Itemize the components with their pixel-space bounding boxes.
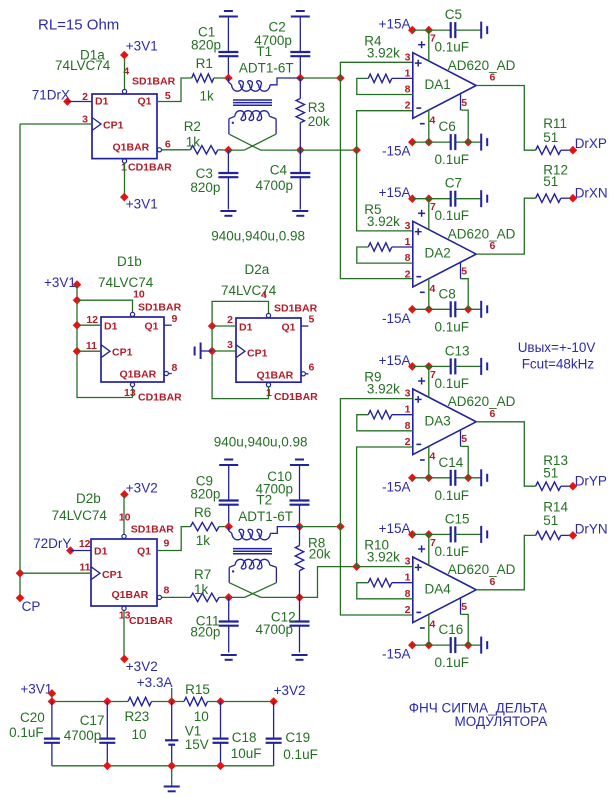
svg-text:МОДУЛЯТОРА: МОДУЛЯТОРА <box>455 714 548 729</box>
svg-text:C13: C13 <box>445 343 470 358</box>
junction node C (T2 top) <box>336 522 345 531</box>
pin7 wire (DA4) <box>428 534 430 565</box>
bubble Q1BAR (D2a) <box>301 372 305 376</box>
wire secondary row left <box>228 149 244 151</box>
capacitor C1 <box>218 17 238 79</box>
flip-flop D2b body <box>91 539 157 606</box>
svg-text:D1: D1 <box>104 321 118 333</box>
svg-text:R2: R2 <box>184 119 201 134</box>
svg-text:2: 2 <box>227 314 233 326</box>
wire to CD1BAR (D1b) <box>132 387 134 398</box>
svg-text:820p: 820p <box>191 38 221 53</box>
svg-text:C4: C4 <box>270 163 288 178</box>
capacitor C5 <box>451 22 482 38</box>
pin4 wire (DA2) <box>428 279 430 310</box>
resistor R4 (gain of DA1) <box>357 74 413 94</box>
wire CP1 stub (D1a) <box>20 123 92 125</box>
power +15A (DA1) <box>379 17 451 35</box>
bubble CD1BAR (D2b) <box>122 606 126 610</box>
resistor R7 <box>190 593 228 601</box>
bubble Q1BAR (D1b) <box>164 371 168 375</box>
svg-text:+3V2: +3V2 <box>126 481 158 496</box>
resistor R23 <box>128 697 152 705</box>
svg-text:15V: 15V <box>185 737 209 752</box>
wire T2 secondary row left <box>229 596 245 598</box>
junction D2a pin2 <box>208 322 217 331</box>
pin4 wire (DA4) <box>428 614 430 645</box>
pin5 wire (DA1) <box>461 94 469 143</box>
svg-text:4700p: 4700p <box>256 178 294 193</box>
svg-text:3.92k: 3.92k <box>367 45 400 60</box>
junction CP at D2b <box>16 569 25 578</box>
capacitor C17 <box>99 702 115 766</box>
plus mark supply (DA2) <box>418 210 425 217</box>
svg-text:D1: D1 <box>95 96 109 108</box>
capacitor C10 <box>290 465 310 527</box>
svg-text:4: 4 <box>430 114 436 126</box>
svg-text:1k: 1k <box>186 135 201 150</box>
svg-text:4: 4 <box>430 451 436 463</box>
wire +3V1 bus (D1b) <box>77 285 133 398</box>
svg-text:3.92k: 3.92k <box>367 550 400 565</box>
svg-text:8: 8 <box>172 362 178 374</box>
svg-text:10: 10 <box>132 727 147 742</box>
pin5 wire (DA4) <box>461 598 469 645</box>
svg-text:R7: R7 <box>194 567 211 582</box>
op-amp DA1 AD620 <box>413 53 476 119</box>
bubble SD1BAR pin (D1a) <box>122 89 126 93</box>
wire node D up to DA3 pin2 <box>357 447 413 567</box>
svg-text:DrXN: DrXN <box>575 186 608 201</box>
svg-text:RL=15 Ohm: RL=15 Ohm <box>38 17 119 34</box>
power +15A (DA4) <box>379 521 451 539</box>
svg-text:12: 12 <box>86 314 98 326</box>
svg-text:74LVC74: 74LVC74 <box>221 283 277 298</box>
svg-text:940u,940u,0.98: 940u,940u,0.98 <box>211 229 305 244</box>
svg-text:1: 1 <box>405 404 411 416</box>
minus mark input (DA2) <box>416 276 421 278</box>
ground above C9 <box>219 464 238 466</box>
bubble SD1BAR (D2a) <box>266 313 270 317</box>
junction node B (T1 bottom) <box>352 146 361 155</box>
svg-text:820p: 820p <box>190 487 220 502</box>
bubble Q1BAR pin (D1a) <box>157 148 161 152</box>
wire 71DrX to pin D1 <box>67 101 92 103</box>
power -15A (DA1) <box>382 138 481 159</box>
svg-text:0.1uF: 0.1uF <box>435 319 470 334</box>
node CP terminal <box>16 594 41 614</box>
svg-text:5: 5 <box>165 90 171 102</box>
svg-text:3: 3 <box>405 220 411 232</box>
power +3V2 terminal bottom of D2b <box>120 655 158 674</box>
minus mark supply (DA3) <box>420 459 425 461</box>
junction rail at C20 <box>48 697 57 706</box>
ground right of C13 <box>480 358 482 375</box>
svg-text:10: 10 <box>119 512 131 524</box>
svg-text:820p: 820p <box>190 625 220 640</box>
svg-text:2: 2 <box>405 268 411 280</box>
svg-text:20k: 20k <box>308 114 330 129</box>
wire to D1 (D1b) <box>77 324 101 326</box>
ground below C11 <box>221 654 237 656</box>
svg-text:R11: R11 <box>543 116 567 131</box>
junction rail at +3.3A <box>167 697 176 706</box>
ground above C10 <box>290 464 309 466</box>
minus mark input (DA1) <box>416 107 421 109</box>
svg-text:C3: C3 <box>196 166 213 181</box>
svg-text:11: 11 <box>86 340 97 352</box>
wire CD1BAR to +3V1 (D1a) <box>124 163 126 197</box>
resistor R9 (gain of DA3) <box>357 411 413 431</box>
svg-text:+3V1: +3V1 <box>126 197 158 212</box>
svg-text:6: 6 <box>165 139 171 151</box>
svg-text:1: 1 <box>266 387 272 399</box>
svg-text:51: 51 <box>543 174 558 189</box>
terminal I (D2a) <box>195 343 213 360</box>
svg-text:6: 6 <box>309 362 315 374</box>
capacitor C3 <box>218 150 238 209</box>
junction T2 secondary left <box>224 593 233 602</box>
svg-text:Fcut=48kHz: Fcut=48kHz <box>522 357 595 372</box>
ground above C1 <box>219 16 238 18</box>
svg-text:9: 9 <box>172 313 178 325</box>
pin7 wire (DA1) <box>428 30 430 61</box>
power -15A (DA2) <box>382 305 481 326</box>
svg-text:Q1: Q1 <box>137 546 151 558</box>
wire T2 top row to node C <box>300 526 341 528</box>
svg-text:+15A: +15A <box>379 521 411 536</box>
svg-text:3: 3 <box>405 556 411 568</box>
wire node A down to DA2 pin2 <box>340 78 412 279</box>
svg-text:DA1: DA1 <box>425 77 451 92</box>
svg-text:DA3: DA3 <box>425 413 451 428</box>
svg-text:R3: R3 <box>308 100 325 115</box>
svg-text:Q1BAR: Q1BAR <box>257 370 294 382</box>
svg-text:1: 1 <box>405 236 411 248</box>
wire T2 secondary crossover <box>229 583 276 598</box>
svg-text:+3V1: +3V1 <box>20 682 52 697</box>
svg-text:9: 9 <box>164 538 170 550</box>
svg-text:8: 8 <box>405 588 411 600</box>
ground above C2 <box>291 16 310 18</box>
svg-text:C16: C16 <box>439 622 464 637</box>
svg-text:T2: T2 <box>256 493 272 508</box>
capacitor C7 <box>451 191 482 207</box>
pin5 wire (DA3) <box>461 430 469 478</box>
transformer T2 core <box>233 549 272 554</box>
node 72DrY <box>66 546 75 555</box>
op-amp DA2 AD620 <box>413 221 476 287</box>
capacitor C6 <box>450 134 452 150</box>
junction T2 primary left <box>224 522 233 531</box>
svg-text:D1b: D1b <box>117 254 142 269</box>
svg-text:C17: C17 <box>80 713 105 728</box>
capacitor C15 <box>451 526 482 542</box>
svg-text:+15A: +15A <box>379 353 411 368</box>
junction T1 secondary left <box>224 146 233 155</box>
svg-text:AD620_AD: AD620_AD <box>448 58 516 73</box>
ground right of C14 <box>480 469 482 486</box>
suppressor V1 <box>165 702 178 766</box>
resistor R12 <box>536 194 573 202</box>
svg-text:AD620_AD: AD620_AD <box>448 394 516 409</box>
wire Q1 (D2b) to R6 <box>157 527 190 551</box>
svg-text:CP1: CP1 <box>102 569 123 581</box>
svg-text:74LVC74: 74LVC74 <box>98 275 154 290</box>
transformer T1 core <box>233 100 272 105</box>
ground right of C6 <box>480 134 482 151</box>
wire to SD1BAR (D1b) <box>77 300 133 312</box>
svg-text:Q1: Q1 <box>282 322 296 334</box>
junction D2a pin3 <box>208 347 217 356</box>
svg-text:0.1uF: 0.1uF <box>435 544 470 559</box>
svg-text:+3V2: +3V2 <box>274 683 306 698</box>
svg-text:R23: R23 <box>125 709 150 724</box>
ground right of C16 <box>480 637 482 654</box>
junction T1 primary left <box>224 74 233 83</box>
svg-text:R15: R15 <box>185 682 210 697</box>
power +3V2 terminal top of D2b <box>120 481 158 499</box>
svg-text:8: 8 <box>405 420 411 432</box>
resistor R11 <box>536 146 573 154</box>
wire CP to CP1 (D2b) <box>20 572 91 574</box>
svg-text:6: 6 <box>490 576 496 588</box>
svg-text:4: 4 <box>261 289 267 301</box>
plus mark supply (DA1) <box>418 41 425 48</box>
svg-text:0.1uF: 0.1uF <box>435 376 470 391</box>
ground below C4 <box>292 210 308 212</box>
svg-text:C6: C6 <box>439 119 456 134</box>
pin7 wire (DA2) <box>428 199 430 230</box>
svg-text:3: 3 <box>405 388 411 400</box>
svg-text:-15A: -15A <box>382 311 411 326</box>
wire to CP1 (D2a) <box>212 350 236 352</box>
wire T1 bottom row to node B <box>300 149 356 151</box>
svg-text:5: 5 <box>309 314 315 326</box>
resistor R14 <box>536 531 573 539</box>
svg-text:+15A: +15A <box>379 17 411 32</box>
resistor R13 <box>536 482 573 490</box>
svg-text:51: 51 <box>543 130 558 145</box>
bubble SD1BAR (D2b) <box>122 534 126 538</box>
junction T1 primary right <box>296 74 305 83</box>
wire to D1 (D2a) <box>212 325 236 327</box>
transformer T2 secondary winding <box>229 559 276 582</box>
ground right of C15 <box>480 526 482 543</box>
transformer T1 primary winding <box>228 78 300 91</box>
node 71DrX <box>63 97 72 106</box>
svg-text:8: 8 <box>405 84 411 96</box>
ground right of C8 <box>480 301 482 318</box>
pin7 wire (DA3) <box>428 366 430 397</box>
junction T2 primary right <box>295 522 304 531</box>
svg-text:4700p: 4700p <box>256 622 294 637</box>
svg-text:1: 1 <box>405 67 411 79</box>
svg-text:C18: C18 <box>232 730 257 745</box>
svg-text:72DrY: 72DrY <box>33 536 71 551</box>
svg-text:T1: T1 <box>256 44 272 59</box>
svg-text:0.1uF: 0.1uF <box>435 152 470 167</box>
svg-text:C5: C5 <box>445 7 462 22</box>
plus mark input (DA4) <box>415 564 422 571</box>
power +3.3A terminal <box>137 675 173 702</box>
svg-text:12: 12 <box>79 538 91 550</box>
capacitor C14 <box>450 470 452 486</box>
junction bottom rail at V1 <box>167 762 176 771</box>
svg-text:DA2: DA2 <box>425 246 451 261</box>
junction bottom rail at C17 <box>103 762 112 771</box>
svg-text:5: 5 <box>461 265 467 277</box>
svg-text:0.1uF: 0.1uF <box>435 655 470 670</box>
bubble CD1BAR (D1b) <box>130 383 134 387</box>
flip-flop D2a body <box>236 318 301 382</box>
wire T2 bottom jog to node D <box>300 567 357 598</box>
svg-text:4: 4 <box>430 283 436 295</box>
junction node A (T1 top) <box>336 74 345 83</box>
ground below C12 <box>292 654 308 656</box>
resistor R15 <box>184 697 208 705</box>
svg-text:Q1BAR: Q1BAR <box>113 142 150 154</box>
svg-text:74LVC74: 74LVC74 <box>52 508 108 523</box>
svg-text:CP: CP <box>22 599 41 614</box>
svg-text:1: 1 <box>405 572 411 584</box>
capacitor C16 <box>450 637 452 653</box>
svg-text:4700p: 4700p <box>64 728 102 743</box>
svg-text:ADT1-6T: ADT1-6T <box>238 509 293 524</box>
wire Q1BAR (D2b) to R7 <box>162 596 191 598</box>
op-amp DA4 AD620 <box>413 557 476 623</box>
svg-text:5: 5 <box>461 601 467 613</box>
svg-text:0.1uF: 0.1uF <box>435 40 470 55</box>
flip-flop D1a body <box>92 94 157 159</box>
svg-text:5: 5 <box>461 97 467 109</box>
power +3V1 terminal (D1b) <box>44 275 81 290</box>
plus mark supply (DA3) <box>418 378 425 385</box>
svg-text:Uвых=+-10V: Uвых=+-10V <box>518 340 596 355</box>
minus mark supply (DA4) <box>420 627 425 629</box>
svg-text:ADT1-6T: ADT1-6T <box>239 61 294 76</box>
svg-text:CP1: CP1 <box>112 347 133 359</box>
wire T1 top row to node A <box>300 77 340 79</box>
svg-text:8: 8 <box>405 252 411 264</box>
svg-text:1k: 1k <box>194 582 209 597</box>
svg-text:0.1uF: 0.1uF <box>435 208 470 223</box>
wire CD1BAR to +3V2 (D2b) <box>123 611 125 659</box>
svg-text:R6: R6 <box>194 505 211 520</box>
resistor R10 (gain of DA4) <box>357 579 413 599</box>
wire to CP1 (D1b) <box>77 350 101 352</box>
svg-text:6: 6 <box>490 72 496 84</box>
node DrXP <box>569 136 607 155</box>
plus mark input (DA2) <box>415 228 422 235</box>
resistor R8 <box>295 527 303 598</box>
resistor R1 <box>192 74 229 82</box>
capacitor C11 <box>219 597 239 652</box>
stub Q1BAR pin8 (D1b) <box>169 373 172 375</box>
svg-text:Q1: Q1 <box>138 96 152 108</box>
power +3V1 terminal top of D1a <box>120 39 158 60</box>
resistor R2 <box>190 146 228 154</box>
capacitor C18 <box>213 702 229 766</box>
wire node C up to DA3 pin3 <box>340 399 412 527</box>
stub Q1BAR pin6 (D2a) <box>306 373 309 375</box>
ground right of C7 <box>480 190 482 207</box>
power +3V1 terminal bottom of D1a <box>120 193 158 212</box>
svg-text:51: 51 <box>543 513 558 528</box>
svg-text:0.1uF: 0.1uF <box>9 725 44 740</box>
plus mark input (DA3) <box>415 396 422 403</box>
transformer T1 secondary winding <box>229 111 276 134</box>
resistor R6 <box>190 522 228 530</box>
junction bottom rail at C18 <box>216 762 225 771</box>
svg-text:+15A: +15A <box>379 185 411 200</box>
junction D1b pin12 <box>73 321 82 330</box>
svg-text:51: 51 <box>543 466 558 481</box>
capacitor C2 <box>290 17 310 79</box>
junction node D <box>352 562 361 571</box>
wire node D right to DA4 pin3 <box>357 566 413 568</box>
stub Q1 pin9 (D1b) <box>164 324 172 326</box>
svg-text:D1: D1 <box>239 322 253 334</box>
svg-text:D2b: D2b <box>76 491 101 506</box>
svg-text:3: 3 <box>227 339 233 351</box>
svg-text:CD1BAR: CD1BAR <box>128 162 172 174</box>
svg-text:C7: C7 <box>445 176 462 191</box>
power +15A (DA3) <box>379 353 451 371</box>
junction T2 secondary right <box>295 593 304 602</box>
svg-text:74LVC74: 74LVC74 <box>55 58 111 73</box>
transformer T2 primary winding <box>229 527 300 540</box>
svg-text:C19: C19 <box>285 730 310 745</box>
svg-text:2: 2 <box>405 604 411 616</box>
op-amp DA3 AD620 <box>413 389 476 455</box>
svg-text:SD1BAR: SD1BAR <box>131 524 175 536</box>
resistor R5 (gain of DA2) <box>357 243 413 263</box>
svg-text:SD1BAR: SD1BAR <box>132 76 176 88</box>
plus mark supply (DA4) <box>418 546 425 553</box>
svg-text:DrXP: DrXP <box>575 136 607 151</box>
svg-text:-15A: -15A <box>382 144 411 159</box>
svg-text:5: 5 <box>461 433 467 445</box>
minus mark supply (DA2) <box>420 291 425 293</box>
wire Q1 (D1a) to R1 <box>157 78 192 102</box>
wire node B up to DA1 pin2 <box>357 111 413 150</box>
wire SD1BAR to +3V1 (D1a) <box>124 55 126 89</box>
svg-text:-15A: -15A <box>382 479 411 494</box>
junction rail at C17 <box>103 697 112 706</box>
capacitor C4 <box>290 150 310 209</box>
capacitor C19 <box>266 702 282 766</box>
svg-text:10: 10 <box>194 709 209 724</box>
capacitor C9 <box>219 465 239 527</box>
svg-text:4: 4 <box>430 619 436 631</box>
svg-text:820p: 820p <box>190 180 220 195</box>
svg-text:3: 3 <box>405 51 411 63</box>
power +15A (DA2) <box>379 185 451 203</box>
svg-text:CP1: CP1 <box>247 348 268 360</box>
power -15A (DA4) <box>382 641 481 662</box>
svg-text:CD1BAR: CD1BAR <box>129 615 173 627</box>
svg-text:1k: 1k <box>200 89 215 104</box>
svg-text:13: 13 <box>124 387 136 399</box>
junction D1b pin11 <box>73 347 82 356</box>
bubble CD1BAR (D2a) <box>266 383 270 387</box>
wire output to R14 <box>476 535 535 589</box>
svg-text:DrYP: DrYP <box>575 474 607 489</box>
node +3V2 rail end <box>269 683 305 706</box>
junction rail at C18 <box>216 697 225 706</box>
wire node A up to DA1 pin3 <box>340 62 412 78</box>
